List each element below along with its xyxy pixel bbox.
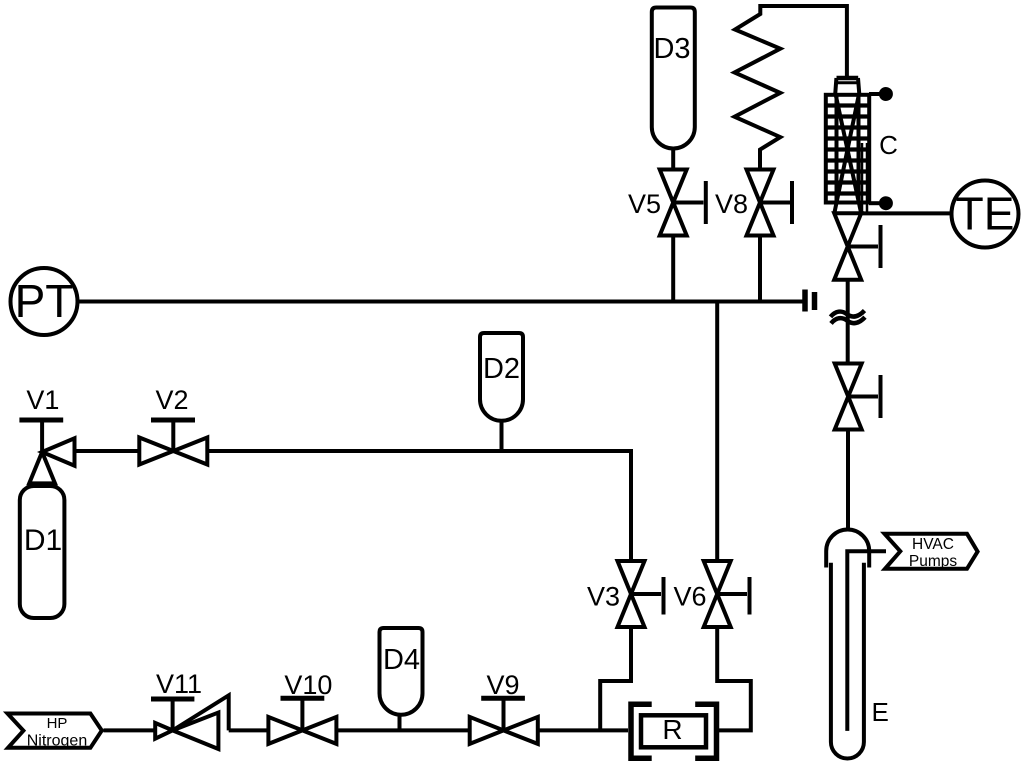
trap E dome [826, 530, 869, 568]
svg-text:V8: V8 [715, 189, 748, 219]
condenser C bottom port dot [869, 196, 893, 210]
valve V2 [139, 385, 207, 465]
vessel D3 [652, 8, 695, 149]
vessel D4 [380, 628, 423, 715]
svg-text:V5: V5 [628, 189, 661, 219]
svg-text:D3: D3 [653, 33, 690, 65]
reactor R outer shield [631, 704, 717, 758]
wire V10 to V9 [336, 728, 469, 732]
condenser C body [826, 78, 898, 213]
trap E inner tube [847, 551, 886, 731]
svg-text:V6: V6 [673, 582, 706, 612]
svg-text:V2: V2 [155, 385, 188, 415]
wire PT main line [78, 300, 804, 304]
valve A below condenser [834, 213, 880, 279]
wire D4 to line [398, 714, 402, 730]
wire valve A to break [846, 280, 850, 364]
wire V1 to V2 [75, 449, 140, 453]
heater zigzag coil [735, 6, 847, 170]
svg-text:V9: V9 [486, 670, 519, 700]
wire V11 to V10 [229, 728, 269, 732]
wire V5 to PT line [671, 236, 675, 302]
svg-text:V3: V3 [587, 582, 620, 612]
valve V6 [673, 561, 749, 627]
regulator V11 [151, 669, 229, 749]
valve V1 [19, 385, 74, 483]
wire V2 to V3 branch [207, 451, 631, 561]
svg-text:E: E [872, 697, 889, 727]
wire V6 branch from PT line [715, 302, 719, 562]
valve V8 [715, 170, 792, 236]
svg-text:V10: V10 [284, 670, 332, 700]
wire V3 to reactor left [600, 627, 631, 730]
svg-text:Pumps: Pumps [909, 553, 957, 570]
valve V3 [587, 561, 664, 627]
vessel D2 [480, 333, 523, 421]
svg-text:D2: D2 [483, 353, 520, 385]
svg-text:V11: V11 [156, 669, 202, 699]
wire V9 to reactor [538, 728, 628, 732]
svg-text:PT: PT [15, 275, 74, 327]
svg-text:TE: TE [956, 188, 1015, 240]
cylinder D1 [20, 486, 65, 618]
svg-text:Nitrogen: Nitrogen [27, 733, 87, 750]
pipe end cap [805, 290, 815, 312]
svg-text:R: R [662, 714, 682, 745]
offpage flag HVAC Pumps [885, 534, 978, 570]
wire V6 to reactor right [717, 627, 751, 730]
wire D3 to V5 [671, 148, 675, 170]
condenser C top port dot [869, 87, 893, 101]
valve V5 [628, 170, 706, 236]
svg-text:HVAC: HVAC [912, 536, 954, 553]
valve V10 [268, 670, 336, 744]
svg-text:V1: V1 [26, 385, 59, 415]
offpage flag HP Nitrogen [8, 714, 102, 750]
instrument TE [952, 181, 1019, 248]
wire C to TE [861, 211, 951, 215]
valve B [835, 364, 881, 430]
trap E outer tube [831, 563, 864, 759]
svg-text:D1: D1 [24, 524, 62, 557]
wire V8 to PT line [758, 236, 762, 302]
svg-text:D4: D4 [383, 644, 420, 676]
wire D2 to line [500, 420, 504, 451]
reactor R box [641, 714, 706, 747]
condenser C flange [836, 78, 859, 83]
pipe break squiggle [831, 311, 866, 324]
wire valve B to trap E [846, 430, 850, 531]
svg-text:C: C [879, 130, 898, 160]
wire flag to V11 [104, 728, 156, 732]
instrument PT [11, 268, 78, 335]
valve V9 [470, 670, 538, 744]
svg-text:HP: HP [47, 715, 68, 732]
